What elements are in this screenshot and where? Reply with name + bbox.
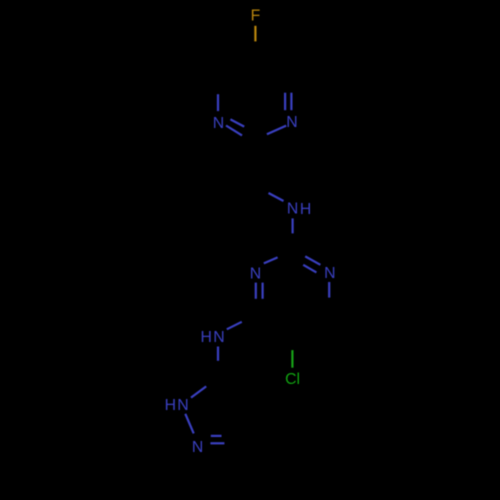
svg-text:N: N — [287, 201, 298, 218]
svg-text:N: N — [250, 266, 261, 283]
svg-text:H: H — [300, 201, 311, 218]
svg-text:N: N — [213, 329, 224, 346]
svg-text:N: N — [286, 114, 297, 131]
svg-text:N: N — [177, 397, 188, 414]
svg-text:Cl: Cl — [285, 371, 300, 388]
svg-text:H: H — [165, 397, 176, 414]
svg-text:H: H — [200, 329, 211, 346]
svg-text:F: F — [251, 8, 261, 25]
svg-text:N: N — [324, 265, 335, 282]
svg-text:N: N — [213, 115, 224, 132]
svg-text:N: N — [192, 439, 203, 456]
